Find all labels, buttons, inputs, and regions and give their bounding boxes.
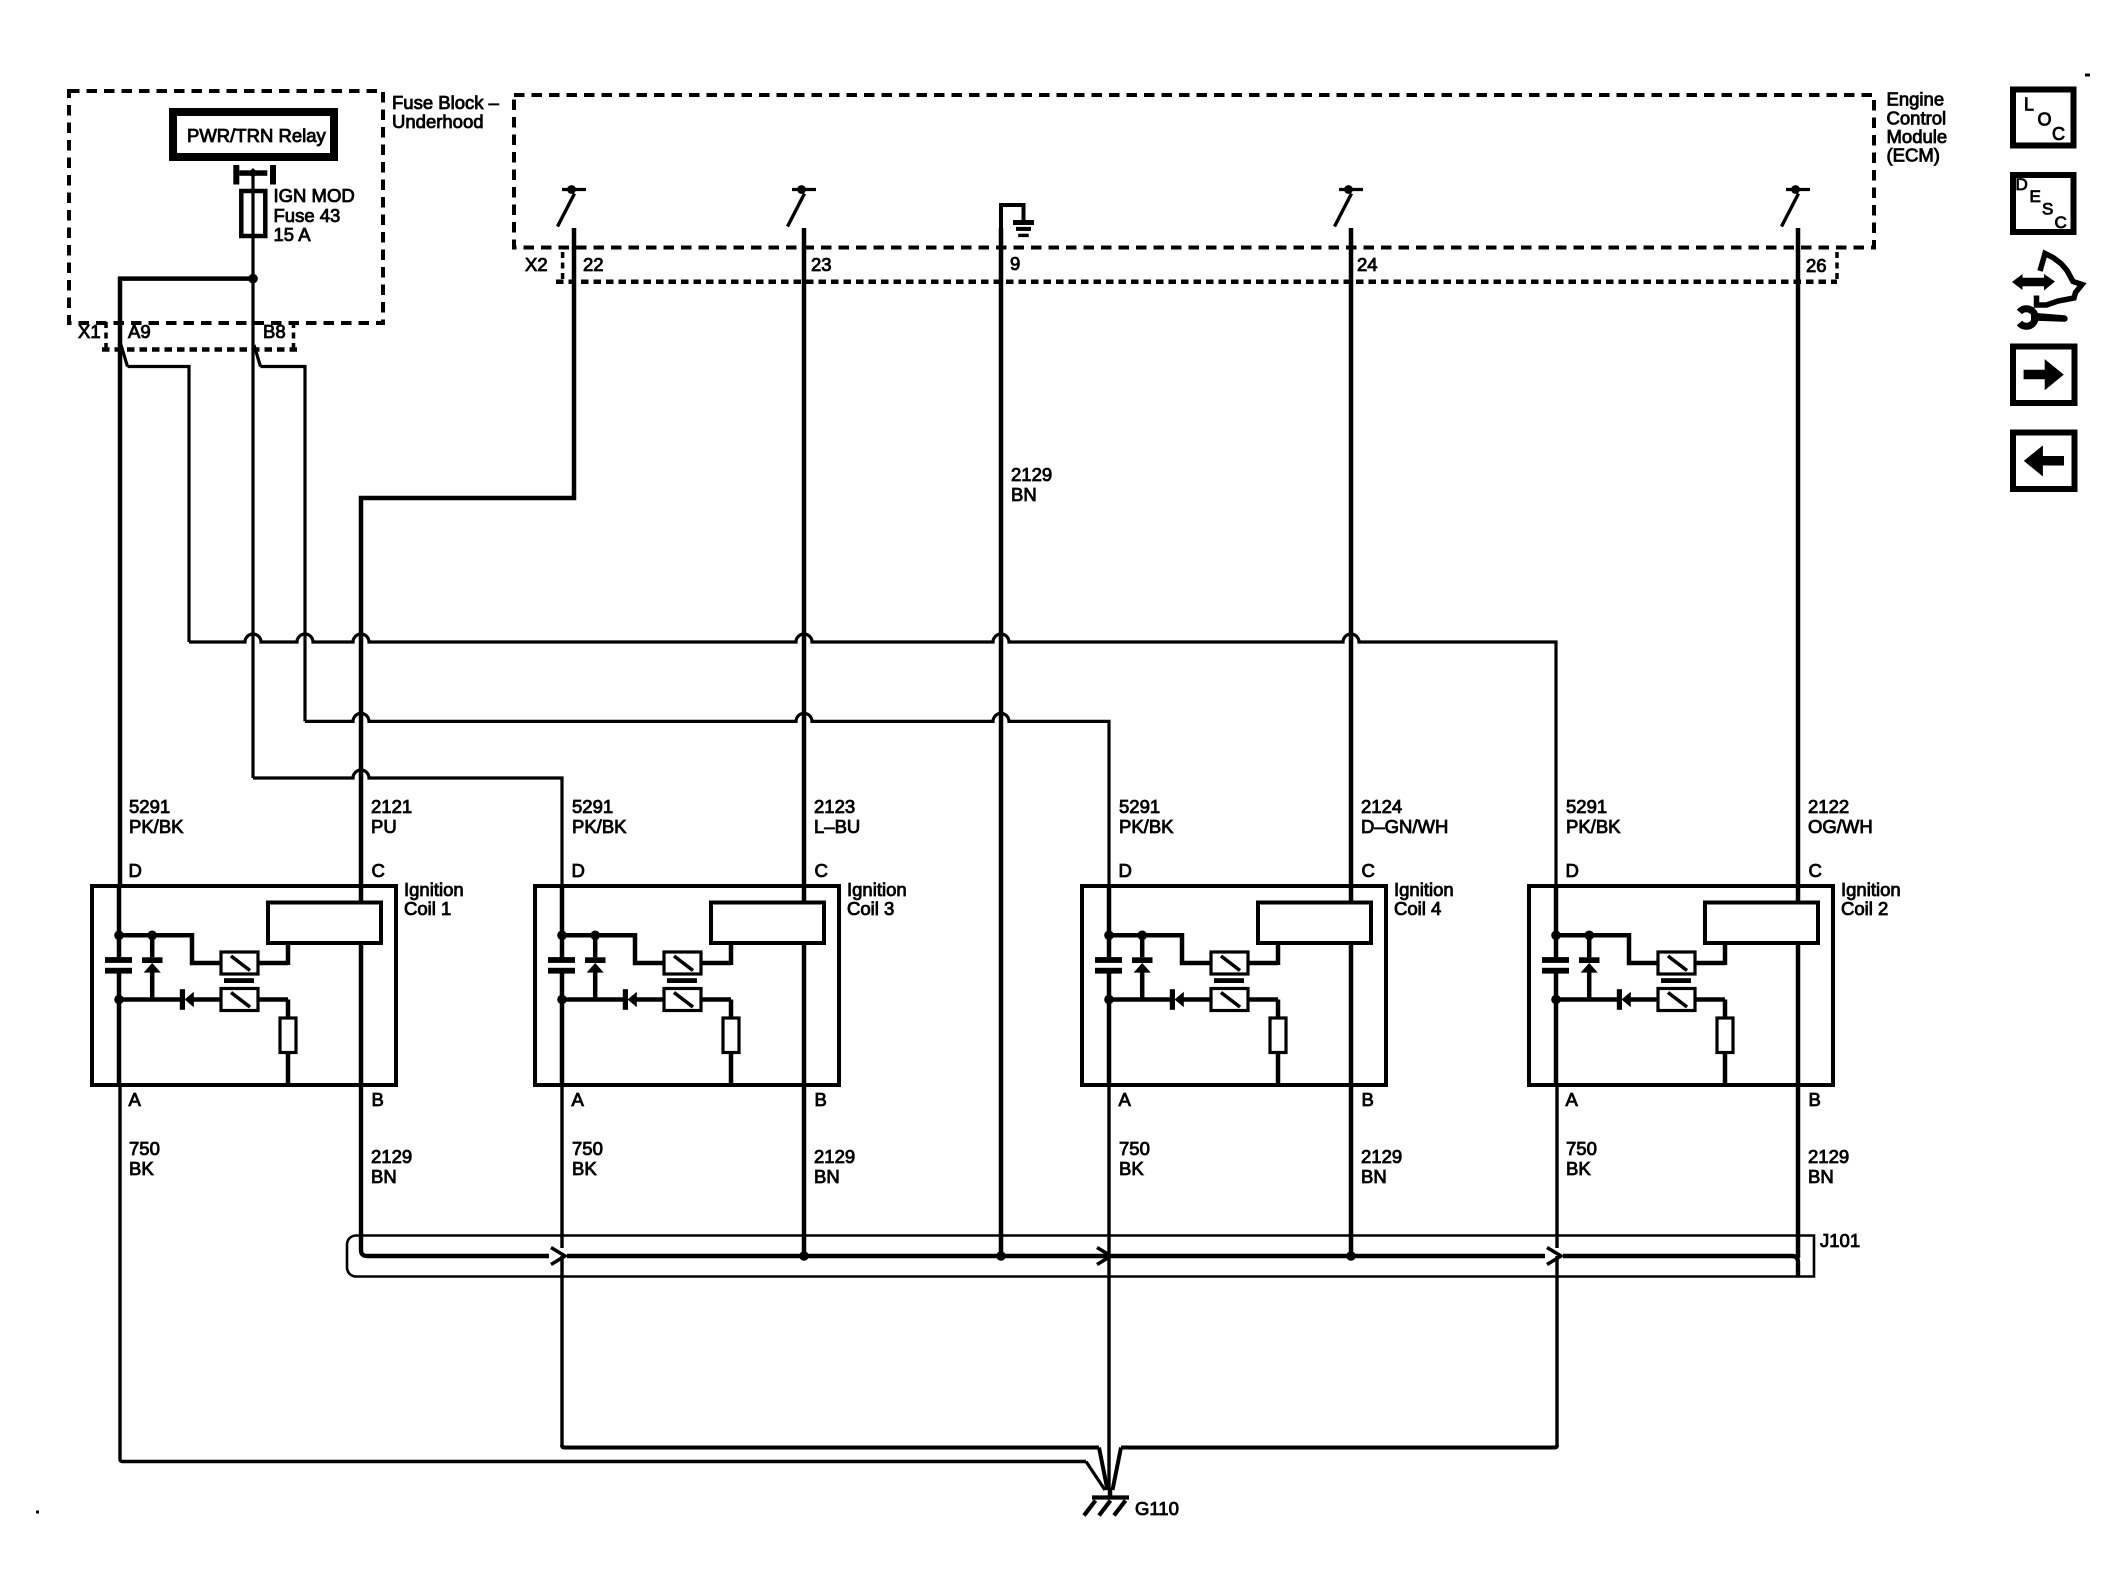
- svg-text:E: E: [2030, 187, 2041, 206]
- relay output terminal bracket: [233, 165, 239, 185]
- wire: fuse output to left drop: [118, 276, 253, 281]
- svg-text:BN: BN: [1361, 1166, 1387, 1187]
- svg-text:BN: BN: [814, 1166, 840, 1187]
- svg-text:G110: G110: [1135, 1498, 1179, 1519]
- svg-text:BK: BK: [1566, 1158, 1591, 1179]
- driver at ECM pin 26: [1782, 185, 1811, 226]
- svg-text:750: 750: [1566, 1138, 1597, 1159]
- ignition coil 4: [1082, 860, 1386, 1110]
- ground G110: [1084, 1448, 1179, 1520]
- svg-text:15 A: 15 A: [274, 224, 312, 245]
- svg-text:D–GN/WH: D–GN/WH: [1361, 816, 1448, 837]
- svg-text:5291: 5291: [572, 796, 613, 817]
- splice pack J101 outline: [347, 1236, 1814, 1277]
- connector X1 strip separator: [292, 322, 296, 350]
- svg-text:750: 750: [129, 1138, 160, 1159]
- node: fuse output junction: [248, 274, 258, 284]
- wire 2129 BN: ECM 9 to J101: [999, 228, 1004, 1256]
- svg-text:O: O: [2038, 110, 2052, 130]
- icon next arrow: [2013, 347, 2075, 404]
- ignition coil 1: [92, 860, 396, 1110]
- connector X2 strip right separator: [1835, 252, 1839, 280]
- svg-text:2124: 2124: [1361, 796, 1402, 817]
- svg-text:J101: J101: [1820, 1230, 1860, 1251]
- connector X2 strip separator: [561, 252, 565, 280]
- fuse block dashed outline: [69, 91, 383, 323]
- svg-text:750: 750: [572, 1138, 603, 1159]
- svg-text:24: 24: [1357, 254, 1378, 275]
- svg-text:Coil 1: Coil 1: [404, 898, 451, 919]
- wire 2129 BN: coil 4 pin B into J101: [1349, 1085, 1354, 1256]
- wire 750 BK: coil 1 pin A down: [120, 1085, 1086, 1462]
- splice arrow at coil 4 pin A crossing: [1097, 1248, 1111, 1265]
- svg-text:Ignition: Ignition: [1394, 879, 1454, 900]
- wire: A9 branch jog: [121, 345, 128, 367]
- driver at ECM pin 23: [788, 185, 817, 226]
- svg-text:Ignition: Ignition: [1841, 879, 1901, 900]
- wire 2124 D-GN/WH: ECM 24 to coil 4 pin C: [1349, 228, 1354, 886]
- svg-text:Coil 4: Coil 4: [1394, 898, 1441, 919]
- wire: B8 drop through connector: [251, 279, 254, 345]
- svg-text:Ignition: Ignition: [404, 879, 464, 900]
- svg-text:5291: 5291: [129, 796, 170, 817]
- wire: B8 branch jog: [254, 345, 261, 367]
- svg-text:IGN MOD: IGN MOD: [274, 185, 355, 206]
- svg-text:(ECM): (ECM): [1887, 145, 1940, 166]
- svg-text:Fuse Block –: Fuse Block –: [392, 92, 500, 113]
- wire: B8 main vertical down to H3: [251, 344, 254, 778]
- ignition coil 2: [1529, 860, 1833, 1110]
- svg-text:B8: B8: [263, 321, 286, 342]
- fuse F43 IGN MOD 15 A: [251, 176, 254, 192]
- relay K1 PWR/TRN Relay: [173, 112, 334, 157]
- svg-text:C: C: [2055, 213, 2067, 232]
- svg-text:23: 23: [811, 254, 832, 275]
- svg-text:L–BU: L–BU: [814, 816, 860, 837]
- splice arrow at coil 2 pin A crossing: [1547, 1248, 1561, 1265]
- svg-text:A9: A9: [128, 321, 151, 342]
- wire 750 BK: coil 2 pin A down through J101: [1555, 1085, 1558, 1248]
- driver at ECM pin 24: [1335, 185, 1364, 226]
- svg-text:5291: 5291: [1566, 796, 1607, 817]
- stray mark top right: [2085, 74, 2090, 77]
- splice arrow at coil 3 pin A crossing: [551, 1248, 565, 1265]
- svg-text:Engine: Engine: [1887, 89, 1945, 110]
- svg-text:S: S: [2042, 200, 2053, 219]
- svg-text:BN: BN: [1011, 484, 1037, 505]
- svg-text:Underhood: Underhood: [392, 111, 484, 132]
- stray mark bottom left: [36, 1511, 39, 1514]
- svg-text:2129: 2129: [1011, 464, 1052, 485]
- wire 2122 OG/WH: ECM 26 to coil 2 pin C: [1796, 228, 1801, 886]
- svg-text:BK: BK: [129, 1158, 154, 1179]
- svg-text:BK: BK: [1119, 1158, 1144, 1179]
- wire 5291 H2: B8 branch feed to coil 4 pin D: [305, 713, 1109, 886]
- svg-text:750: 750: [1119, 1138, 1150, 1159]
- svg-text:X1: X1: [78, 321, 101, 342]
- ECM dashed outline: [514, 95, 1874, 248]
- svg-text:PK/BK: PK/BK: [1566, 816, 1621, 837]
- svg-text:OG/WH: OG/WH: [1808, 816, 1873, 837]
- icon LOC: [2013, 90, 2074, 146]
- connector X2 strip dotted line: [556, 279, 1837, 284]
- svg-text:X2: X2: [525, 254, 548, 275]
- svg-text:Ignition: Ignition: [847, 879, 907, 900]
- svg-text:5291: 5291: [1119, 796, 1160, 817]
- svg-text:D: D: [2016, 175, 2028, 194]
- svg-text:PK/BK: PK/BK: [572, 816, 627, 837]
- svg-text:Coil 3: Coil 3: [847, 898, 894, 919]
- internal ground hook at ECM pin 9: [1001, 205, 1034, 237]
- wire 750 BK: coil 3 pin A down through J101: [560, 1085, 563, 1248]
- wire 5291 H1: A9 branch feed to coil 2 pin D: [189, 634, 1556, 886]
- wire 2129 BN bus inside J101: [361, 1085, 549, 1256]
- svg-text:Coil 2: Coil 2: [1841, 898, 1888, 919]
- icon wrench with arrows: [2012, 254, 2082, 327]
- wire 2129 BN: coil 2 pin B into J101 (right end of bus): [1796, 1085, 1801, 1258]
- connector X1 strip dotted line: [102, 347, 297, 352]
- svg-text:2129: 2129: [1808, 1146, 1849, 1167]
- svg-text:PU: PU: [371, 816, 397, 837]
- svg-text:PWR/TRN Relay: PWR/TRN Relay: [187, 125, 327, 146]
- svg-text:BN: BN: [1808, 1166, 1834, 1187]
- svg-text:Fuse 43: Fuse 43: [274, 205, 341, 226]
- svg-text:2122: 2122: [1808, 796, 1849, 817]
- driver (low-side switch) at ECM pin 22: [558, 185, 587, 226]
- svg-text:2121: 2121: [371, 796, 412, 817]
- svg-text:2129: 2129: [371, 1146, 412, 1167]
- svg-text:2129: 2129: [1361, 1146, 1402, 1167]
- wire 5291 H3: B8 main feed to coil 3 pin D: [253, 770, 562, 886]
- svg-text:PK/BK: PK/BK: [1119, 816, 1174, 837]
- wire 2123 L-BU: ECM 23 to coil 3 pin C: [802, 228, 807, 886]
- svg-text:2123: 2123: [814, 796, 855, 817]
- wire: A9 main vertical down to coil 1 pin D: [118, 344, 123, 886]
- svg-text:BN: BN: [371, 1166, 397, 1187]
- svg-text:2129: 2129: [814, 1146, 855, 1167]
- svg-text:22: 22: [583, 254, 604, 275]
- icon back arrow: [2013, 433, 2075, 490]
- ignition coil 3: [535, 860, 839, 1110]
- svg-text:L: L: [2024, 95, 2034, 115]
- wire 750 BK: coil 4 pin A down to G110: [1107, 1085, 1110, 1490]
- wire: left drop to X1 pin A9: [118, 277, 123, 346]
- svg-text:BK: BK: [572, 1158, 597, 1179]
- wire 2121 PU: ECM 22 to coil 1 pin C: [361, 228, 574, 886]
- svg-text:C: C: [2052, 124, 2065, 144]
- node: ECM 9 wire at J101: [996, 1251, 1006, 1261]
- wire 2129 BN: coil 3 pin B into J101: [802, 1085, 807, 1256]
- svg-text:9: 9: [1010, 253, 1020, 274]
- icon DESC: [2013, 175, 2074, 232]
- svg-text:26: 26: [1806, 255, 1827, 276]
- svg-text:PK/BK: PK/BK: [129, 816, 184, 837]
